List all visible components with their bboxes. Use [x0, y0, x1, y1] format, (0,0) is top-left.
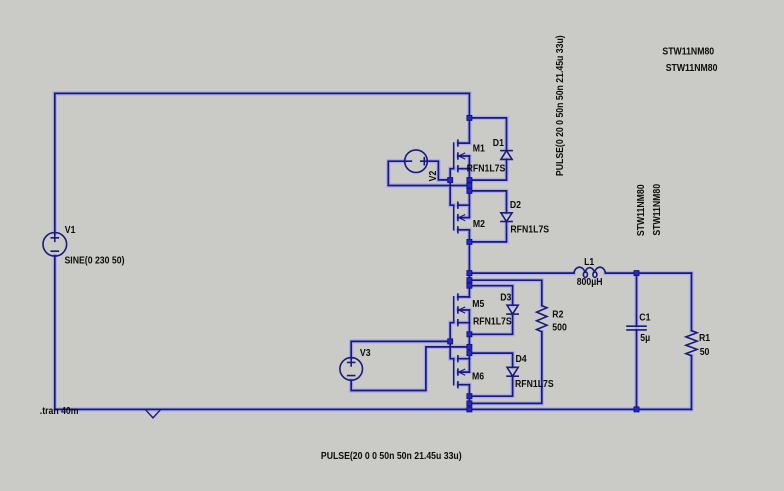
node D3 branch [467, 283, 472, 288]
node D2 branch [467, 188, 472, 193]
svg-text:RFN1L7S: RFN1L7S [510, 224, 549, 236]
wire V3 minus to mid node [351, 347, 469, 391]
voltage source V2 [405, 150, 428, 173]
node M1 source [467, 178, 472, 183]
wire M5 source vertical [468, 310, 470, 334]
wire D1 anode branch [469, 118, 506, 151]
diode D1 [501, 151, 512, 160]
svg-text:R2: R2 [552, 309, 563, 321]
voltage source V1 [43, 233, 67, 257]
svg-text:RFN1L7S: RFN1L7S [473, 316, 512, 328]
wire D3 top branch [469, 286, 512, 306]
svg-text:STW11NM80: STW11NM80 [666, 62, 718, 74]
svg-text:STW11NM80: STW11NM80 [652, 184, 664, 236]
wire left column V1 top [54, 93, 56, 233]
svg-text:RFN1L7S: RFN1L7S [515, 378, 554, 390]
svg-text:5µ: 5µ [640, 332, 650, 344]
node C1 bottom rail [634, 407, 639, 412]
wire M6 verticals [468, 359, 470, 397]
node R2 branch [467, 278, 472, 283]
svg-text:C1: C1 [639, 312, 650, 324]
transistor M6 [454, 356, 466, 388]
resistor R2 [537, 306, 547, 332]
svg-text:500: 500 [552, 322, 567, 334]
transistor M2 [454, 202, 466, 232]
wire center column to M1 drain [468, 93, 470, 143]
wire V1 bottom to rail [54, 256, 56, 410]
wire M2 source vertical [468, 230, 470, 242]
wire R2 bottom [469, 332, 541, 404]
resistor R1 [686, 331, 697, 356]
wire M5 gate lead [450, 323, 454, 342]
wire M2 drain vertical [468, 191, 470, 218]
svg-text:50: 50 [700, 346, 710, 358]
wire M1 gate lead [450, 169, 454, 180]
svg-text:R1: R1 [699, 332, 710, 344]
wire M1 stubs [458, 143, 470, 169]
wire halos [55, 93, 692, 409]
ground [146, 410, 160, 418]
wire C1 leads [636, 273, 638, 409]
wire V3 plus to gates [351, 341, 450, 357]
junction node squares [448, 115, 639, 412]
svg-text:D4: D4 [516, 354, 528, 366]
capacitor C1 [627, 326, 646, 330]
wire M6 stubs [458, 359, 470, 385]
wire R1 leads [691, 273, 693, 409]
svg-text:M1: M1 [473, 143, 485, 155]
wire D2 top branch [469, 191, 506, 213]
wire center column lower mid [468, 334, 470, 358]
node rail center [467, 407, 472, 412]
wire D3 bottom return [469, 314, 512, 334]
wire gate link M5-M6 [450, 341, 454, 358]
diode D2 [501, 213, 512, 222]
wire V2 minus to mid node [388, 161, 469, 185]
wire bottom rail (ground net) [55, 408, 692, 410]
svg-text:PULSE(20 0 0 50n 50n 21.45u 33: PULSE(20 0 0 50n 50n 21.45u 33u) [321, 450, 462, 462]
wire M5 stubs [458, 297, 470, 323]
svg-text:STW11NM80: STW11NM80 [635, 184, 647, 236]
node D4 branch [467, 351, 472, 356]
transistor M5 [454, 294, 466, 326]
svg-text:PULSE(0 20 0 50n 50n 21.45u 33: PULSE(0 20 0 50n 50n 21.45u 33u) [555, 35, 567, 176]
transistor M1 [454, 140, 466, 171]
wire D2 bottom return [469, 222, 506, 242]
node M1 gate [448, 178, 453, 183]
node M1 drain [467, 115, 472, 120]
node L1 branch [467, 271, 472, 276]
node R2 bottom [467, 401, 472, 406]
svg-text:D1: D1 [493, 138, 504, 150]
node mid V2 [467, 183, 472, 188]
diode D4 [507, 367, 518, 376]
wire center column mid [468, 242, 470, 297]
wire M6 source to rail [468, 396, 470, 409]
voltage source V3 [340, 358, 363, 381]
inductor L1 [574, 267, 606, 277]
svg-text:V2: V2 [428, 171, 440, 182]
node V3 minus [467, 344, 472, 349]
svg-text:M6: M6 [472, 371, 484, 383]
svg-text:STW11NM80: STW11NM80 [662, 46, 714, 58]
svg-text:V1: V1 [65, 224, 76, 236]
node C1 top [634, 271, 639, 276]
wire M1 source vertical [468, 156, 470, 180]
svg-text:SINE(0 230 50): SINE(0 230 50) [65, 255, 125, 267]
svg-text:.tran 40m: .tran 40m [40, 405, 79, 417]
svg-text:D2: D2 [510, 200, 521, 212]
svg-text:M5: M5 [472, 298, 484, 310]
wire M2 stubs [458, 205, 470, 230]
svg-text:V3: V3 [360, 347, 371, 359]
wire top rail [55, 92, 470, 94]
svg-text:800µH: 800µH [577, 277, 603, 289]
svg-text:RFN1L7S: RFN1L7S [467, 163, 506, 175]
svg-text:D3: D3 [500, 292, 511, 304]
wire L1 row [469, 272, 691, 274]
node M2 source [467, 239, 472, 244]
wire D4 bottom return [469, 376, 512, 396]
diode D3 [507, 305, 518, 314]
svg-text:M2: M2 [473, 219, 485, 231]
wire V2 plus to gates [427, 161, 450, 180]
wire D4 top branch [469, 353, 512, 367]
wire R2 top [469, 280, 541, 305]
svg-text:L1: L1 [584, 256, 594, 268]
node M6 source [467, 394, 472, 399]
node M5 gate [448, 339, 453, 344]
node M5 source [467, 332, 472, 337]
wire gate link M1-M2 [450, 180, 454, 205]
wire D1 cathode return [469, 159, 506, 180]
